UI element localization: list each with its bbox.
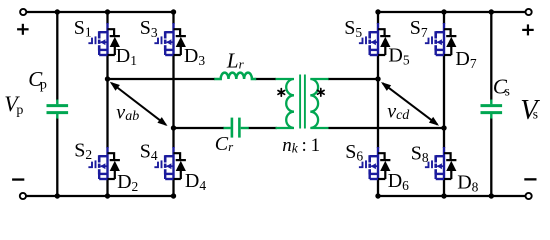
junction leg D bottom xyxy=(441,193,446,198)
terminal top right xyxy=(526,9,532,15)
junction leg C top xyxy=(375,9,380,14)
transformer T1 secondary winding xyxy=(310,79,328,128)
junction node d xyxy=(441,125,446,130)
wire bottom rail left bridge xyxy=(26,195,174,197)
junction leg A top xyxy=(105,9,110,14)
wire leg A upper xyxy=(106,12,108,24)
wire Lr to transformer xyxy=(256,78,277,80)
wire leg D middle xyxy=(443,54,445,148)
terminal bottom left xyxy=(20,193,26,199)
terminal bottom right xyxy=(526,193,532,199)
body diode D8 xyxy=(444,153,456,179)
wire leg D upper xyxy=(443,12,445,24)
wire node b to Cr xyxy=(174,127,225,129)
transistor S2 xyxy=(88,147,107,179)
label + top right xyxy=(522,24,534,35)
wire Cp branch lower xyxy=(56,118,58,197)
transistor S6 xyxy=(359,147,378,179)
transformer T1 primary winding xyxy=(276,79,295,128)
label - bottom left xyxy=(12,178,24,180)
transistor S8 xyxy=(425,147,444,179)
arrow v_cd xyxy=(383,83,438,124)
wire Cs branch upper xyxy=(490,12,492,101)
junction node b xyxy=(171,125,176,130)
junction leg D top xyxy=(441,9,446,14)
wire Cp branch upper xyxy=(56,12,58,101)
svg-text:nk : 1: nk : 1 xyxy=(282,135,320,156)
transistor S5 xyxy=(359,23,378,55)
body diode D3 xyxy=(174,29,186,55)
wire bottom rail right bridge xyxy=(378,195,526,197)
junction Cs top xyxy=(489,9,494,14)
polarity dot primary xyxy=(278,89,285,97)
wire leg B middle xyxy=(172,54,174,148)
junction leg B bottom xyxy=(171,193,176,198)
body diode D1 xyxy=(108,29,120,55)
wire leg B lower xyxy=(172,178,174,196)
capacitor Cp xyxy=(47,100,69,119)
body diode D4 xyxy=(174,153,186,179)
junction node a xyxy=(105,76,110,81)
capacitor Cs xyxy=(481,100,503,119)
svg-text:Vs: Vs xyxy=(520,95,540,126)
junction Cp bottom xyxy=(55,193,60,198)
junction leg C bottom xyxy=(375,193,380,198)
transformer core xyxy=(300,75,305,129)
wire transformer to node c xyxy=(328,78,378,80)
transistor S7 xyxy=(425,23,444,55)
wire Cr to transformer xyxy=(249,127,278,129)
label - bottom right xyxy=(524,178,536,180)
transistor S1 xyxy=(88,23,107,55)
wire leg A lower xyxy=(106,178,108,196)
wire leg B upper xyxy=(172,12,174,24)
capacitor Cr xyxy=(224,118,249,138)
wire node a to Lr xyxy=(108,78,216,80)
wire leg C lower xyxy=(377,178,379,196)
body diode D5 xyxy=(378,29,390,55)
transistor S4 xyxy=(154,147,173,179)
wire transformer to node d xyxy=(329,127,445,129)
wire leg A middle xyxy=(106,54,108,148)
arrow v_ab xyxy=(111,83,165,125)
junction leg B top xyxy=(171,9,176,14)
wire leg D lower xyxy=(443,178,445,196)
polarity dot secondary xyxy=(318,89,325,97)
body diode D6 xyxy=(378,153,390,179)
junction Cp top xyxy=(55,9,60,14)
body diode D2 xyxy=(108,153,120,179)
inductor Lr xyxy=(214,73,256,79)
junction leg A bottom xyxy=(105,193,110,198)
junction Cs bottom xyxy=(489,193,494,198)
wire leg C upper xyxy=(377,12,379,24)
wire top rail right bridge xyxy=(378,11,526,13)
terminal top left xyxy=(20,9,26,15)
wire Cs branch lower xyxy=(490,118,492,197)
junction node c xyxy=(375,76,380,81)
body diode D7 xyxy=(444,29,456,55)
label + top left xyxy=(17,24,29,35)
transistor S3 xyxy=(154,23,173,55)
wire top rail left bridge xyxy=(26,11,173,13)
wire leg C middle xyxy=(377,54,379,148)
